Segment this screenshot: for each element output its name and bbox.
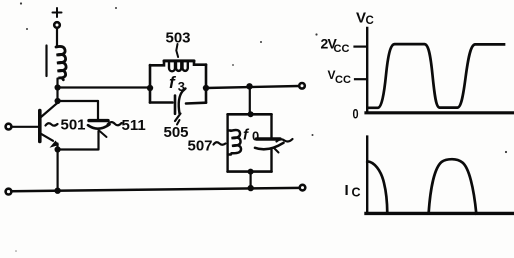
svg-text:C: C xyxy=(366,15,374,27)
svg-text:0: 0 xyxy=(252,129,259,144)
svg-text:505: 505 xyxy=(164,124,189,141)
svg-text:I: I xyxy=(345,182,349,199)
svg-text:503: 503 xyxy=(166,30,191,47)
svg-text:CC: CC xyxy=(334,43,350,55)
svg-text:501: 501 xyxy=(61,117,86,134)
svg-text:V: V xyxy=(356,10,366,27)
svg-text:511: 511 xyxy=(122,117,146,134)
svg-text:3: 3 xyxy=(178,79,185,94)
svg-text:507: 507 xyxy=(188,138,213,155)
svg-text:C: C xyxy=(352,186,361,200)
svg-text:CC: CC xyxy=(335,74,351,86)
svg-text:0: 0 xyxy=(353,106,359,122)
